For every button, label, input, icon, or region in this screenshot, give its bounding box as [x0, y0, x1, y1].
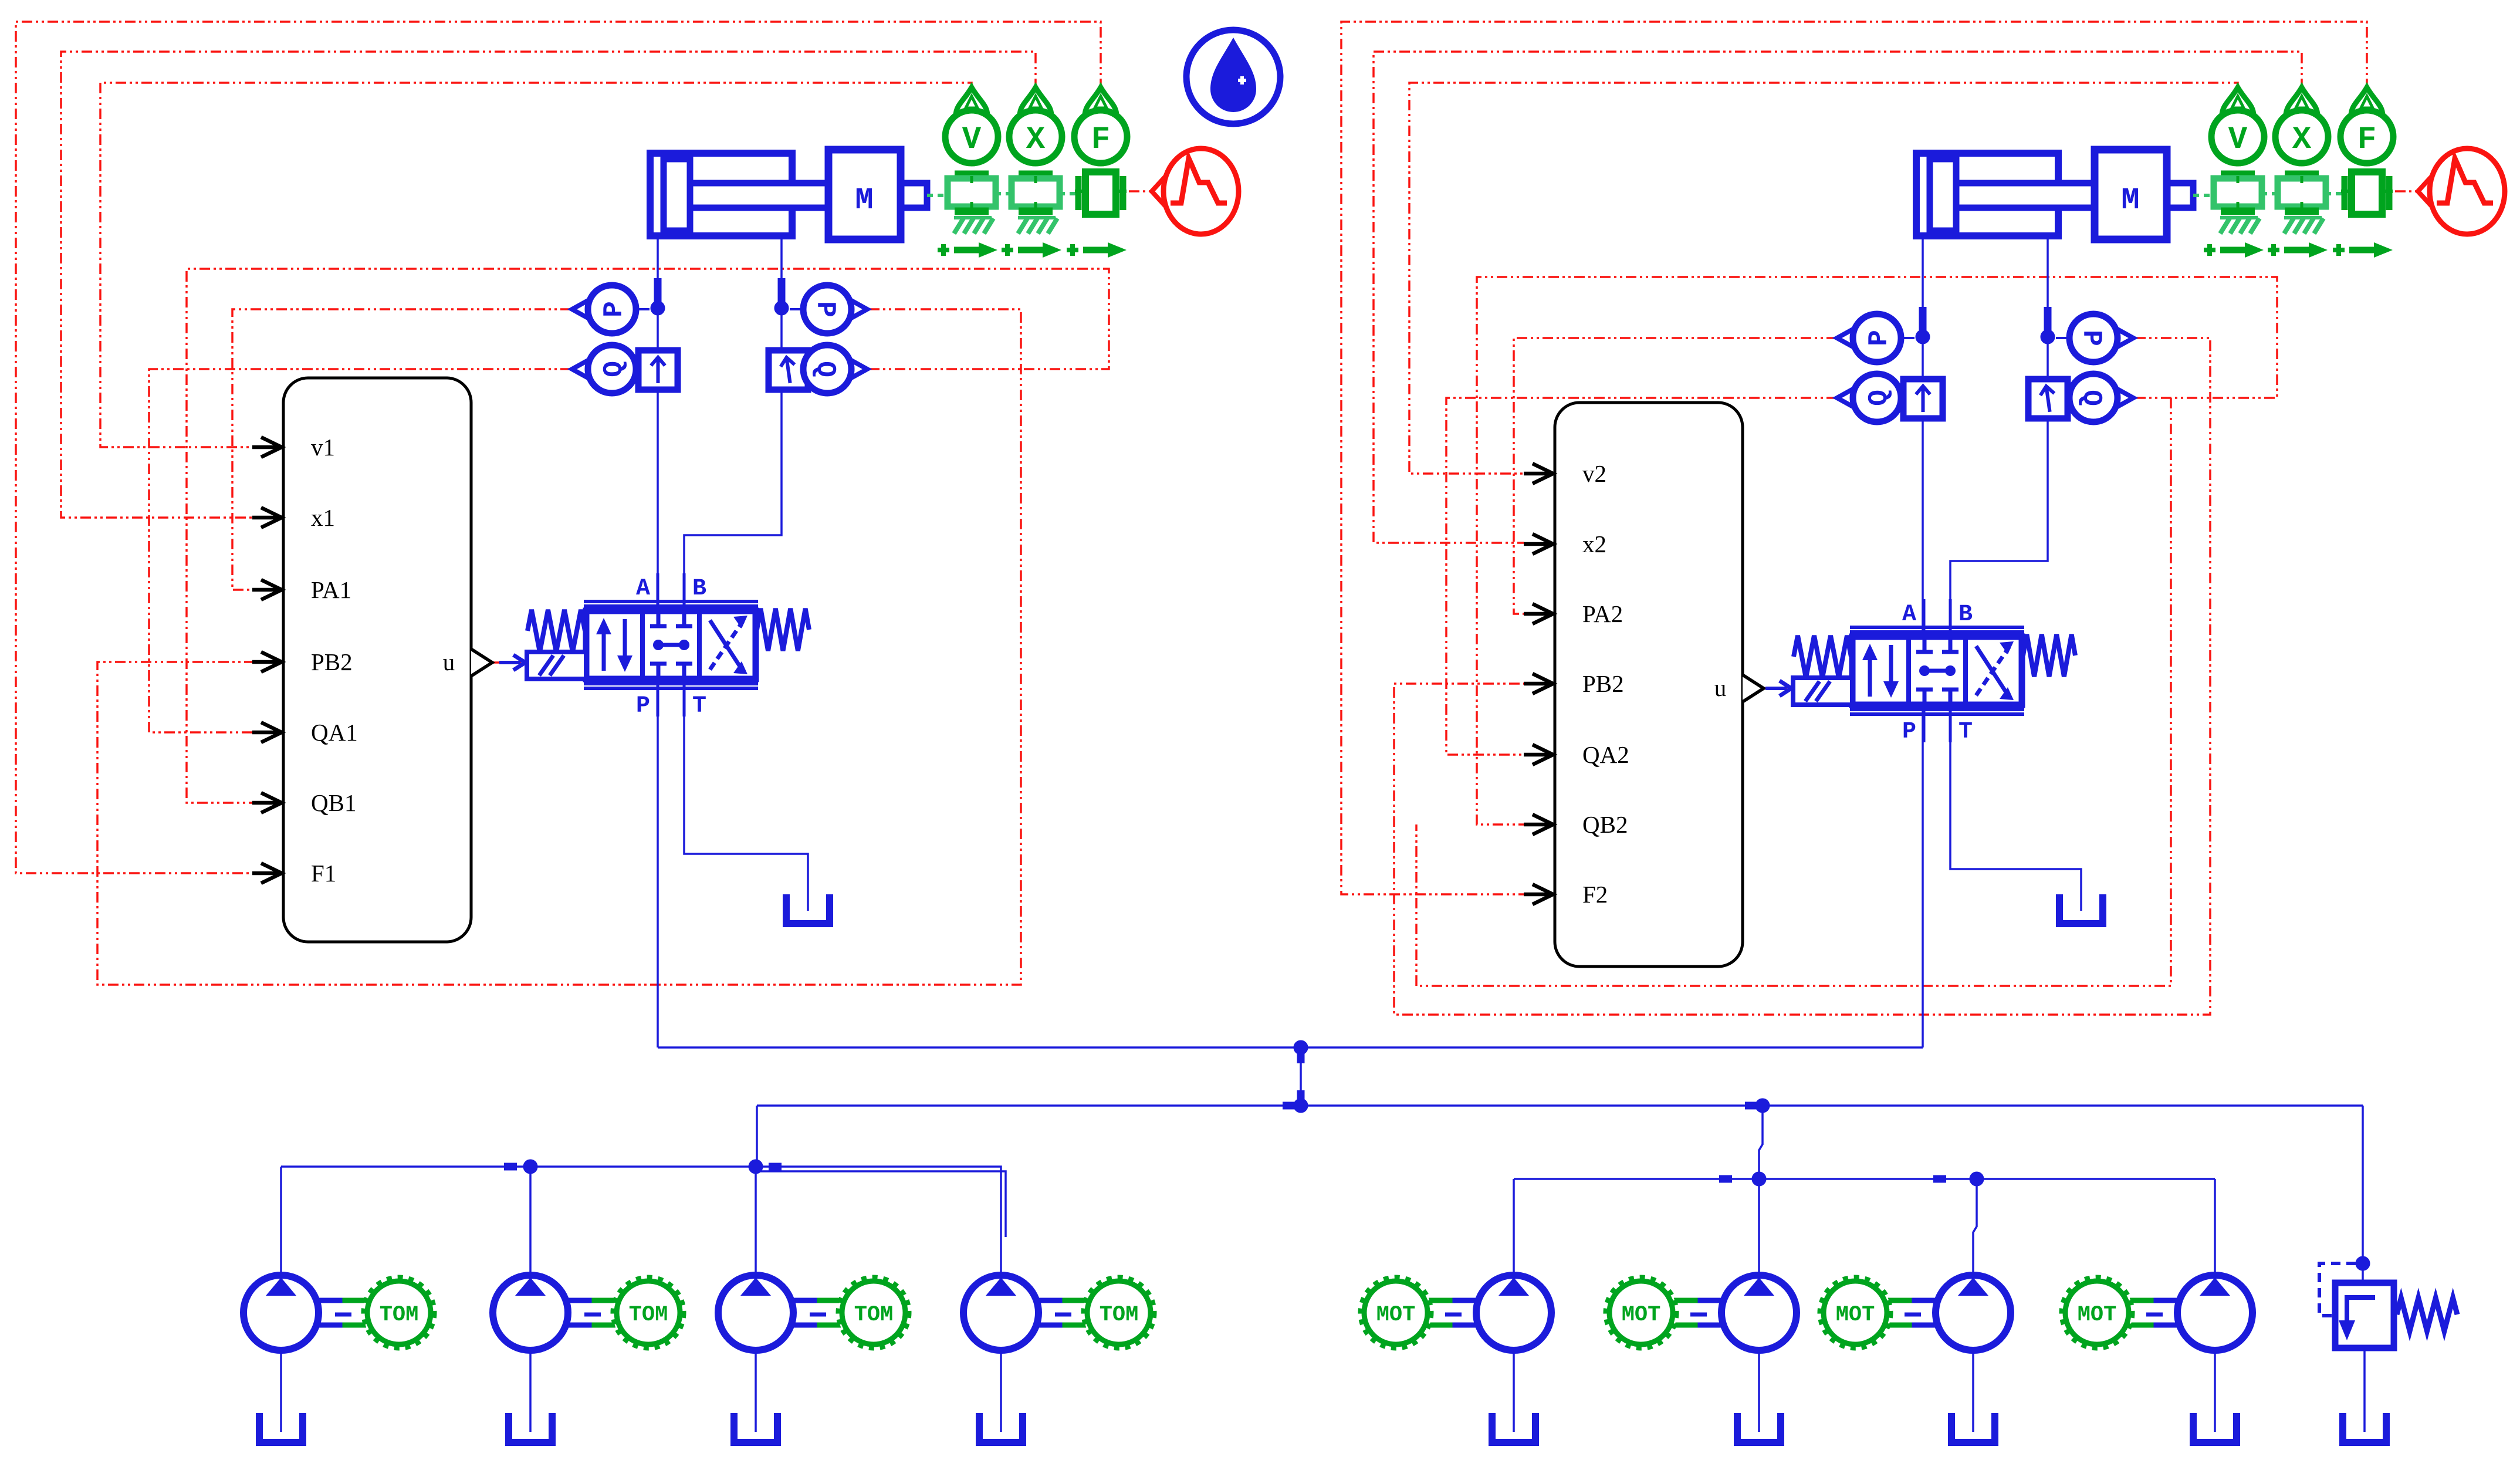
flow sensor Q2B box — [2028, 379, 2068, 418]
flow sensor Q2B dial — [2069, 374, 2133, 422]
wire pump6 to tank — [1758, 1350, 1760, 1432]
signal wire QB1 — [187, 269, 1109, 803]
wire pump M3 drop — [1973, 1179, 1977, 1275]
svg-text:F: F — [2357, 122, 2376, 158]
relief valve RV1 — [2335, 1283, 2457, 1348]
signal wire QA1 — [149, 369, 571, 732]
signal wire scope2 input — [2395, 190, 2419, 192]
mass M2 — [2095, 150, 2193, 239]
svg-text:B: B — [1959, 601, 1973, 628]
wire B2 to valve — [1950, 418, 2048, 637]
svg-text:u: u — [1714, 674, 1727, 701]
flow sensor Q1A dial — [572, 345, 636, 393]
svg-text:F1: F1 — [311, 860, 336, 887]
svg-text:MOT: MOT — [1836, 1303, 1875, 1327]
svg-text:x1: x1 — [311, 504, 335, 531]
junction node relief pilot — [2356, 1256, 2370, 1270]
svg-text:M: M — [2121, 183, 2139, 218]
position sensor X2 — [2268, 87, 2328, 258]
junction node A1 — [651, 301, 665, 315]
wire TOM manifold — [281, 1165, 756, 1168]
controller U2 — [1524, 403, 1764, 967]
wire cylinder1 port B — [780, 239, 783, 350]
wire TOM manifold to pump4 — [756, 1167, 1001, 1273]
wire pump7 to tank — [1972, 1350, 1974, 1432]
signal wire QA2 — [1446, 398, 1837, 755]
cylinder CYL2 — [1916, 153, 2095, 236]
junction node distribution1 — [1294, 1099, 1308, 1113]
wire pump T3 drop — [755, 1167, 757, 1275]
controller U1 — [252, 378, 492, 942]
velocity sensor V1 — [938, 87, 998, 258]
svg-text:Q: Q — [2076, 390, 2106, 406]
wire pump M1 drop — [1513, 1179, 1515, 1275]
tank TK6 — [1737, 1413, 1781, 1442]
pressure sensor P2A — [1837, 314, 1901, 362]
scope SC2 — [2418, 148, 2505, 234]
junction node MOT manifold feed — [1752, 1172, 1766, 1186]
signal wire u1 — [493, 661, 521, 664]
wire relief feed — [2362, 1106, 2364, 1283]
wire P2 supply — [1922, 705, 1924, 1047]
link X2-F2 — [2325, 192, 2343, 195]
svg-text:PA1: PA1 — [311, 576, 351, 603]
signal wire F1 — [16, 22, 1101, 873]
flow sensor Q2A box — [1903, 379, 1943, 418]
tank TK7 — [1951, 1413, 1995, 1442]
force sensor F2 — [2333, 87, 2393, 258]
link V1-X1 — [995, 192, 1011, 195]
svg-text:A: A — [1902, 601, 1916, 628]
wire collector drop — [1300, 1047, 1302, 1106]
wire pump1 to tank — [280, 1350, 282, 1432]
svg-text:P: P — [1864, 330, 1895, 346]
junction node B2 — [2041, 330, 2055, 344]
svg-text:B: B — [692, 576, 706, 602]
link rod1 to sensors — [927, 194, 947, 197]
tank T1 — [786, 894, 830, 924]
wire pump T1 drop — [280, 1167, 282, 1275]
pressure sensor P1A — [572, 285, 636, 333]
junction node distribution2 — [1755, 1099, 1770, 1113]
signal wire PA2 — [1514, 338, 1837, 614]
svg-text:PB2: PB2 — [311, 648, 353, 675]
pump PMOT2 — [1605, 1275, 1797, 1350]
relief pilot line — [2319, 1263, 2356, 1316]
pressure tap stub B2 — [2044, 307, 2052, 333]
flow sensor Q1A box — [638, 350, 678, 390]
tank TK1 — [259, 1413, 303, 1442]
fluid properties icon — [1186, 30, 1280, 124]
tank T2 — [2059, 894, 2103, 924]
wire pump2 to tank — [529, 1350, 532, 1432]
wire A2 to valve — [1922, 418, 1924, 637]
wire MOT feed — [1759, 1106, 1763, 1179]
signal wire PB2 right — [1394, 338, 2210, 1015]
cylinder CYL1 — [650, 153, 828, 236]
tank TK5 — [1492, 1413, 1535, 1442]
junction node collector — [1294, 1040, 1308, 1055]
pressure tap stub A2 — [1919, 307, 1927, 333]
wire pump4 to tank — [1000, 1350, 1002, 1432]
wire pump M4 drop — [2214, 1179, 2216, 1275]
pressure sensor P2B — [2069, 314, 2133, 362]
svg-text:P: P — [2076, 330, 2106, 346]
svg-text:X: X — [1026, 122, 1046, 158]
pressure tap stub B1 — [778, 278, 786, 305]
link X1-F1 — [1059, 192, 1077, 195]
wire TOM manifold second run — [760, 1171, 1006, 1237]
flow sensor Q2A dial — [1837, 374, 1901, 422]
svg-text:PA2: PA2 — [1582, 600, 1623, 627]
junction node TOM manifold — [523, 1160, 537, 1174]
wire cylinder2 port B — [2047, 239, 2049, 379]
wire pump M2 drop — [1758, 1179, 1760, 1275]
signal wire v1 — [100, 83, 972, 447]
wire A1 to valve — [657, 390, 659, 611]
svg-text:Q: Q — [1864, 390, 1895, 406]
pressure tap stub A1 — [654, 278, 662, 305]
svg-text:Q: Q — [599, 361, 630, 377]
svg-text:TOM: TOM — [380, 1303, 419, 1327]
svg-text:F: F — [1091, 122, 1110, 158]
wire pump8 to tank — [2214, 1350, 2216, 1432]
wire TOM feed — [756, 1106, 758, 1167]
pressure sensor P1B — [803, 285, 867, 333]
svg-text:P: P — [1902, 719, 1916, 745]
pump PMOT1 — [1360, 1275, 1551, 1350]
wire T2 to tank — [1950, 705, 2081, 911]
svg-text:M: M — [855, 183, 873, 218]
wire cylinder2 port A — [1922, 239, 1924, 379]
svg-text:QA1: QA1 — [311, 719, 358, 746]
tank TK3 — [734, 1413, 777, 1442]
signal wire x2 — [1374, 52, 2302, 543]
wire relief to tank — [2363, 1348, 2366, 1432]
svg-text:Q: Q — [810, 361, 840, 377]
pump PTOM3 — [718, 1275, 909, 1350]
wire collector — [658, 1046, 1923, 1049]
svg-text:P: P — [599, 301, 630, 317]
wire pump5 to tank — [1513, 1350, 1515, 1432]
svg-text:TOM: TOM — [854, 1303, 894, 1327]
svg-text:PB2: PB2 — [1582, 670, 1624, 697]
signal wire scope1 input — [1129, 190, 1153, 192]
svg-text:P: P — [810, 301, 840, 317]
wire P1 supply — [657, 679, 659, 1047]
signal wire QB2 inner — [1416, 398, 2171, 986]
signal wire v2 — [1409, 83, 2238, 474]
tank TK2 — [509, 1413, 552, 1442]
svg-text:QB2: QB2 — [1582, 811, 1628, 838]
wire distribution — [757, 1104, 2363, 1107]
pump PTOM1 — [243, 1275, 435, 1350]
signal wire u2 — [1765, 687, 1792, 690]
svg-text:T: T — [692, 693, 706, 719]
wire B1 to valve — [684, 390, 782, 611]
signal wire PA1 — [232, 309, 571, 590]
position sensor X1 — [1002, 87, 1062, 258]
wire T1 to tank — [684, 679, 808, 911]
svg-text:QB1: QB1 — [311, 789, 356, 816]
tank TK4 — [979, 1413, 1023, 1442]
signal wire QB2 outer — [1477, 277, 2277, 824]
svg-text:F2: F2 — [1582, 881, 1608, 908]
force sensor F1 — [1067, 87, 1127, 258]
signal wire F2 — [1341, 22, 2367, 894]
flow sensor Q1B dial — [803, 345, 867, 393]
wire cylinder1 port A — [657, 239, 659, 350]
svg-text:V: V — [962, 122, 982, 158]
pump PTOM4 — [963, 1275, 1155, 1350]
flow sensor Q1B box — [769, 350, 808, 390]
svg-text:QA2: QA2 — [1582, 741, 1629, 768]
svg-text:TOM: TOM — [629, 1303, 668, 1327]
signal wire x1 — [61, 52, 1036, 518]
svg-text:MOT: MOT — [1622, 1303, 1661, 1327]
svg-text:X: X — [2292, 122, 2312, 158]
svg-text:u: u — [443, 648, 455, 675]
signal wire PB2 left — [97, 309, 1021, 985]
mass M1 — [828, 150, 927, 239]
svg-text:T: T — [1959, 719, 1973, 745]
velocity sensor V2 — [2204, 87, 2264, 258]
svg-text:V: V — [2228, 122, 2248, 158]
tank TK9 — [2343, 1413, 2386, 1442]
wire pump3 to tank — [755, 1350, 757, 1432]
svg-text:v2: v2 — [1582, 460, 1606, 487]
junction node A2 — [1916, 330, 1930, 344]
svg-text:P: P — [636, 693, 650, 719]
wire pump T2 drop — [529, 1167, 532, 1275]
link rod2 to sensors — [2193, 194, 2213, 197]
pump PMOT3 — [1819, 1275, 2011, 1350]
link V2-X2 — [2261, 192, 2277, 195]
junction node MOT manifold — [1970, 1172, 1984, 1186]
scope SC1 — [1152, 148, 1239, 234]
svg-text:A: A — [636, 576, 650, 602]
servo valve SV2 — [1765, 599, 2075, 745]
junction node TOM feed — [749, 1160, 763, 1174]
svg-text:v1: v1 — [311, 434, 335, 461]
tank TK8 — [2193, 1413, 2237, 1442]
pump PTOM2 — [493, 1275, 684, 1350]
svg-text:TOM: TOM — [1100, 1303, 1139, 1327]
wire MOT manifold — [1514, 1178, 2215, 1180]
junction node B1 — [774, 301, 789, 315]
pump PMOT4 — [2061, 1275, 2252, 1350]
svg-text:MOT: MOT — [2078, 1303, 2117, 1327]
svg-text:MOT: MOT — [1376, 1303, 1416, 1327]
servo valve SV1 — [499, 573, 809, 719]
svg-text:x2: x2 — [1582, 530, 1606, 557]
